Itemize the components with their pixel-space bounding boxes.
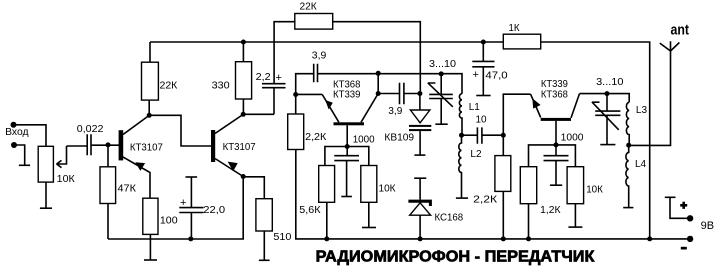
svg-text:Вход: Вход bbox=[5, 127, 29, 138]
svg-text:1000: 1000 bbox=[353, 135, 375, 146]
pot wiper arrow bbox=[57, 146, 67, 168]
wire zener top bar down bbox=[419, 178, 421, 199]
transistor Q3 КТ368/КТ339 base bar bbox=[334, 122, 365, 125]
svg-text:КВ109: КВ109 bbox=[384, 132, 414, 143]
battery + free bar bbox=[665, 196, 676, 198]
inductor L2 bbox=[459, 135, 462, 198]
wire 10K bottom to ground bar bbox=[574, 204, 576, 227]
wire L3 node to antenna bbox=[629, 51, 671, 145]
node dot L3-L4 bbox=[626, 143, 631, 148]
wire C1 to Q1 base node bbox=[91, 144, 119, 146]
svg-text:2,2К: 2,2К bbox=[473, 195, 497, 206]
resistor R7 22K (feedback) body bbox=[295, 14, 333, 30]
capacitor C5 1000 plates bbox=[334, 156, 359, 161]
svg-text:510: 510 bbox=[273, 232, 291, 243]
input terminal X2 (bottom) bbox=[11, 142, 17, 148]
wire 5,6K bottom to rail bbox=[326, 202, 328, 239]
resistor R14 10K body bbox=[567, 167, 584, 204]
top rail bbox=[150, 42, 650, 239]
wire C8 to right node bbox=[482, 134, 503, 136]
svg-text:10К: 10К bbox=[586, 185, 603, 196]
capacitor C2 22,0 top bar bbox=[186, 176, 198, 178]
transistor Q2 emitter line bbox=[215, 159, 243, 177]
resistor R12 2,2K body bbox=[495, 156, 511, 192]
resistor R9 5,6K body bbox=[319, 166, 335, 203]
node dot Q3 collector bbox=[376, 91, 381, 96]
zener VD2 triangle bbox=[410, 203, 431, 215]
inductor L4 bbox=[626, 145, 629, 207]
wire Q2 collector up to 330 bbox=[242, 99, 244, 114]
svg-text:10К: 10К bbox=[379, 184, 396, 195]
svg-text:22К: 22К bbox=[300, 2, 317, 13]
wire down from feedback dot bbox=[377, 73, 379, 93]
inductor L3 bbox=[626, 102, 629, 145]
wire trimmer1 bottom to free bar bbox=[440, 99, 442, 125]
resistor R10 10K body bbox=[361, 166, 377, 203]
transistor Q1 emitter line bbox=[123, 157, 150, 198]
wire node to C8 bbox=[462, 134, 478, 136]
varicap VD1 cathode bars bbox=[409, 125, 431, 127]
node dot 2,2K-rail bbox=[501, 236, 506, 241]
resistor R11 1K body bbox=[503, 34, 540, 49]
inductor L1 bbox=[459, 94, 462, 135]
svg-text:10: 10 bbox=[476, 115, 488, 126]
wire zener bottom to rail bbox=[419, 215, 421, 239]
svg-text:22,0: 22,0 bbox=[203, 205, 225, 216]
svg-text:1,2К: 1,2К bbox=[540, 205, 560, 216]
transistor Q3 collector line bbox=[361, 94, 378, 123]
wire C11 bottom lead bbox=[555, 161, 557, 185]
node dot L1-L2 bbox=[459, 133, 464, 138]
node dot Q1 base bbox=[106, 142, 111, 147]
ground bar (510) bbox=[259, 259, 270, 261]
capacitor C2 22,0 plates bbox=[179, 208, 203, 213]
svg-text:0,022: 0,022 bbox=[77, 124, 104, 135]
wire C2 bottom to rail bbox=[190, 213, 192, 240]
transistor Q3 emitter arrow bbox=[325, 100, 333, 110]
node dot varicap top bbox=[417, 91, 422, 96]
wire C9 bottom to free bar bbox=[482, 67, 484, 96]
svg-text:+: + bbox=[276, 72, 282, 84]
transistor Q2 collector line bbox=[215, 115, 243, 134]
svg-text:3...10: 3...10 bbox=[596, 77, 624, 88]
free bar (zener top) bbox=[414, 177, 426, 179]
wire 22K top to top rail corner bbox=[149, 42, 151, 62]
svg-text:КТ339: КТ339 bbox=[333, 89, 361, 100]
svg-text:КС168: КС168 bbox=[435, 212, 464, 223]
resistor R3 22K body bbox=[142, 62, 159, 100]
node dot Q3 base bbox=[345, 144, 350, 149]
trimmer capacitor C7 3...10 plates bbox=[429, 94, 453, 98]
node dot Q2 collector bbox=[241, 112, 246, 117]
svg-text:ant: ant bbox=[671, 22, 690, 39]
resistor R6 510 body bbox=[256, 199, 272, 231]
wire + bar to terminal bbox=[670, 197, 690, 218]
svg-text:5,6К: 5,6К bbox=[299, 205, 320, 216]
node dot C8 right bbox=[501, 133, 506, 138]
wire 1,2K bottom to rail bbox=[528, 204, 530, 239]
wire Q2 collector to C3 bbox=[243, 113, 274, 115]
svg-text:L1: L1 bbox=[469, 102, 481, 113]
wire varicap node down to КВ109 bbox=[419, 94, 421, 111]
ground bar (trimmer2) bbox=[600, 144, 615, 146]
wire rail to C9 bbox=[482, 42, 484, 61]
transistor Q1 КТ3107 base bar bbox=[119, 130, 124, 160]
node dot 5,6K-rail bbox=[324, 236, 329, 241]
wire 510 bottom to ground bbox=[263, 231, 265, 260]
wire trimmer2 bottom to free bar bbox=[606, 115, 608, 144]
wire C5 top lead bbox=[346, 147, 348, 156]
node dot feedback-collector bbox=[376, 71, 381, 76]
wire base node left to 1,2K bbox=[529, 145, 557, 167]
wire base node right to 10K bbox=[556, 145, 575, 167]
ground bar (trimmer1) bbox=[435, 123, 447, 125]
wire Q3 base down to node bbox=[346, 125, 348, 146]
trimmer2 adjust arrow bbox=[592, 102, 619, 130]
svg-text:L2: L2 bbox=[470, 149, 482, 160]
wire Q1 collector to Q2 base bbox=[149, 115, 211, 146]
transistor Q4 emitter line bbox=[531, 94, 541, 117]
ground bar (100) bbox=[144, 259, 157, 261]
resistor R8 2,2K body bbox=[288, 114, 304, 150]
wire Q3 collector node to C6 to varicap node bbox=[378, 93, 420, 95]
wire C3 top lead up to feedback 22K bbox=[274, 22, 295, 84]
svg-text:L3: L3 bbox=[636, 105, 648, 116]
node dot Q1 collector bbox=[147, 113, 152, 118]
ground bar (L2) bbox=[456, 197, 468, 199]
wire 330 top to rail bbox=[242, 42, 244, 62]
wire osc base node down to 2,2K bbox=[295, 95, 297, 115]
svg-text:РАДИОМИКРОФОН - ПЕРЕДАТЧИК: РАДИОМИКРОФОН - ПЕРЕДАТЧИК bbox=[316, 249, 595, 266]
transistor Q4 collector line bbox=[571, 94, 580, 118]
svg-text:100: 100 bbox=[160, 216, 178, 227]
wire 47K bottom to left rail bbox=[107, 204, 109, 240]
svg-text:КТ3107: КТ3107 bbox=[223, 142, 256, 153]
label + (battery) bbox=[680, 202, 687, 209]
zener VD2 КС168 cathode bar with hook bbox=[408, 200, 432, 206]
node dot trimmer1 top bbox=[439, 71, 444, 76]
wire C2 top bar to plates bbox=[190, 177, 192, 207]
ground bar (КВ109) bbox=[414, 154, 425, 156]
capacitor C8 10 plates bbox=[477, 127, 482, 143]
svg-text:22К: 22К bbox=[160, 80, 178, 91]
svg-text:330: 330 bbox=[212, 81, 230, 92]
left bottom rail bbox=[108, 177, 243, 240]
varicap VD1 КВ109 triangle bbox=[410, 110, 430, 123]
wire C11 top lead bbox=[555, 145, 557, 156]
svg-text:КТ368: КТ368 bbox=[541, 89, 568, 100]
transistor Q4 emitter arrow bbox=[532, 98, 540, 108]
wire trimmer1 lead down bbox=[440, 74, 442, 94]
svg-text:9В: 9В bbox=[701, 220, 714, 232]
node dot osc base bbox=[293, 92, 298, 97]
wire Q4 collector to L3 corner bbox=[580, 94, 630, 103]
resistor R4 100 body bbox=[143, 198, 158, 234]
capacitor C6 3,9 plates (coupling) bbox=[400, 83, 404, 105]
input terminal X1 (top) bbox=[11, 122, 17, 128]
trimmer1 adjust arrow bbox=[428, 83, 453, 107]
svg-text:+: + bbox=[180, 197, 186, 209]
svg-text:3,9: 3,9 bbox=[312, 50, 327, 61]
wire base node left to 5,6K bbox=[325, 147, 347, 166]
node dot 330-rail bbox=[241, 40, 246, 45]
wire base node right to 10K bbox=[347, 147, 369, 166]
svg-text:3,9: 3,9 bbox=[388, 106, 402, 117]
transistor Q1 emitter arrow bbox=[135, 162, 145, 171]
node dot Q2 emitter bbox=[241, 174, 246, 179]
resistor R5 330 body bbox=[236, 62, 252, 99]
svg-text:L4: L4 bbox=[635, 159, 647, 170]
wire C5 bottom lead to ground bar bbox=[346, 161, 348, 197]
wire input terminal to pot top bbox=[14, 125, 47, 147]
transistor Q2 emitter arrow bbox=[228, 162, 238, 172]
wire 100 bottom through rail to ground bbox=[149, 234, 151, 260]
resistor R13 1,2K body bbox=[520, 167, 536, 204]
wire base node down to 47K bbox=[107, 145, 109, 167]
transistor Q4 КТ339/КТ368 base bar bbox=[541, 118, 571, 121]
svg-text:КТ3107: КТ3107 bbox=[130, 143, 163, 154]
wire C8 node down to 2,2K bbox=[502, 135, 504, 155]
node dot 1,2K-rail bbox=[526, 236, 531, 241]
wire C4 to collector node and onward to trimmer bbox=[318, 74, 463, 94]
wire C3 bottom lead bbox=[273, 88, 275, 115]
capacitor C4 3,9 plates bbox=[314, 64, 318, 83]
svg-text:+: + bbox=[473, 69, 479, 81]
svg-text:2,2: 2,2 bbox=[256, 72, 271, 83]
node dot right rail bottom bbox=[647, 236, 652, 241]
ground bar (R14) bbox=[568, 226, 582, 228]
wire osc base node to emitter diagonal bbox=[296, 93, 323, 95]
ground bar (L4) bbox=[623, 207, 633, 209]
wire C8 node up and to Q4 emitter bbox=[503, 94, 530, 135]
wire 2,2K bottom to rail bbox=[502, 191, 504, 239]
battery + terminal dot bbox=[687, 215, 693, 221]
node dot 47,0-rail bbox=[481, 40, 486, 45]
node dot trimmer2 bbox=[605, 91, 610, 96]
ground bar (C9) bbox=[476, 95, 490, 97]
battery - terminal dot bbox=[687, 236, 693, 242]
wire Q2 emitter to 510 bbox=[243, 177, 264, 199]
wire 2,2K bottom down to mid rail corner bbox=[296, 150, 690, 239]
svg-text:1000: 1000 bbox=[561, 132, 584, 143]
svg-text:47,0: 47,0 bbox=[485, 70, 508, 81]
ground bar (C5) bbox=[341, 196, 352, 198]
node dot C2-rail bbox=[188, 236, 193, 241]
label - (battery) bbox=[681, 247, 687, 250]
svg-text:1К: 1К bbox=[509, 23, 520, 34]
ground bar (C11) bbox=[550, 184, 562, 186]
capacitor C11 1000 plates bbox=[544, 156, 569, 161]
wire terminal X2 to ground bbox=[14, 145, 25, 165]
wire pot bottom to ground bbox=[45, 182, 47, 208]
ground bar (input) bbox=[19, 164, 30, 166]
ground bar (R10) bbox=[362, 227, 376, 229]
wire 22K right to corner and down bbox=[333, 22, 421, 91]
potentiometer R1 10K body bbox=[38, 146, 53, 182]
node dot Q4 base bbox=[554, 142, 559, 147]
svg-text:47К: 47К bbox=[118, 184, 137, 195]
antenna symbol bbox=[660, 41, 680, 51]
svg-text:2,2К: 2,2К bbox=[305, 132, 326, 143]
transistor Q3 emitter line bbox=[322, 94, 339, 122]
capacitor C1 0,022 plates bbox=[87, 134, 91, 155]
svg-text:3...10: 3...10 bbox=[429, 59, 456, 70]
wire osc base node up and right (feedback line) bbox=[296, 74, 313, 95]
wire Q4 base down to node bbox=[555, 121, 557, 145]
capacitor C3 2,2 plates bbox=[262, 84, 286, 88]
wire trimmer2 lead down bbox=[606, 94, 608, 111]
resistor R2 47K body bbox=[100, 167, 116, 204]
svg-text:10К: 10К bbox=[57, 174, 75, 185]
transistor Q1 collector line bbox=[123, 116, 149, 135]
node dot zener-rail bbox=[418, 236, 423, 241]
wire wiper to capacitor 0,022 bbox=[67, 145, 87, 147]
transistor Q2 КТ3107 base bar bbox=[211, 130, 215, 162]
capacitor C9 47,0 plates bbox=[472, 61, 494, 66]
wire 10K bottom to ground bar bbox=[368, 202, 370, 227]
ground bar (pot) bbox=[40, 207, 52, 209]
wire КВ109 bottom to free bar bbox=[419, 131, 421, 155]
wire Q1 collector to 22K bbox=[148, 100, 150, 115]
trimmer capacitor C10 3...10 plates bbox=[595, 111, 620, 115]
